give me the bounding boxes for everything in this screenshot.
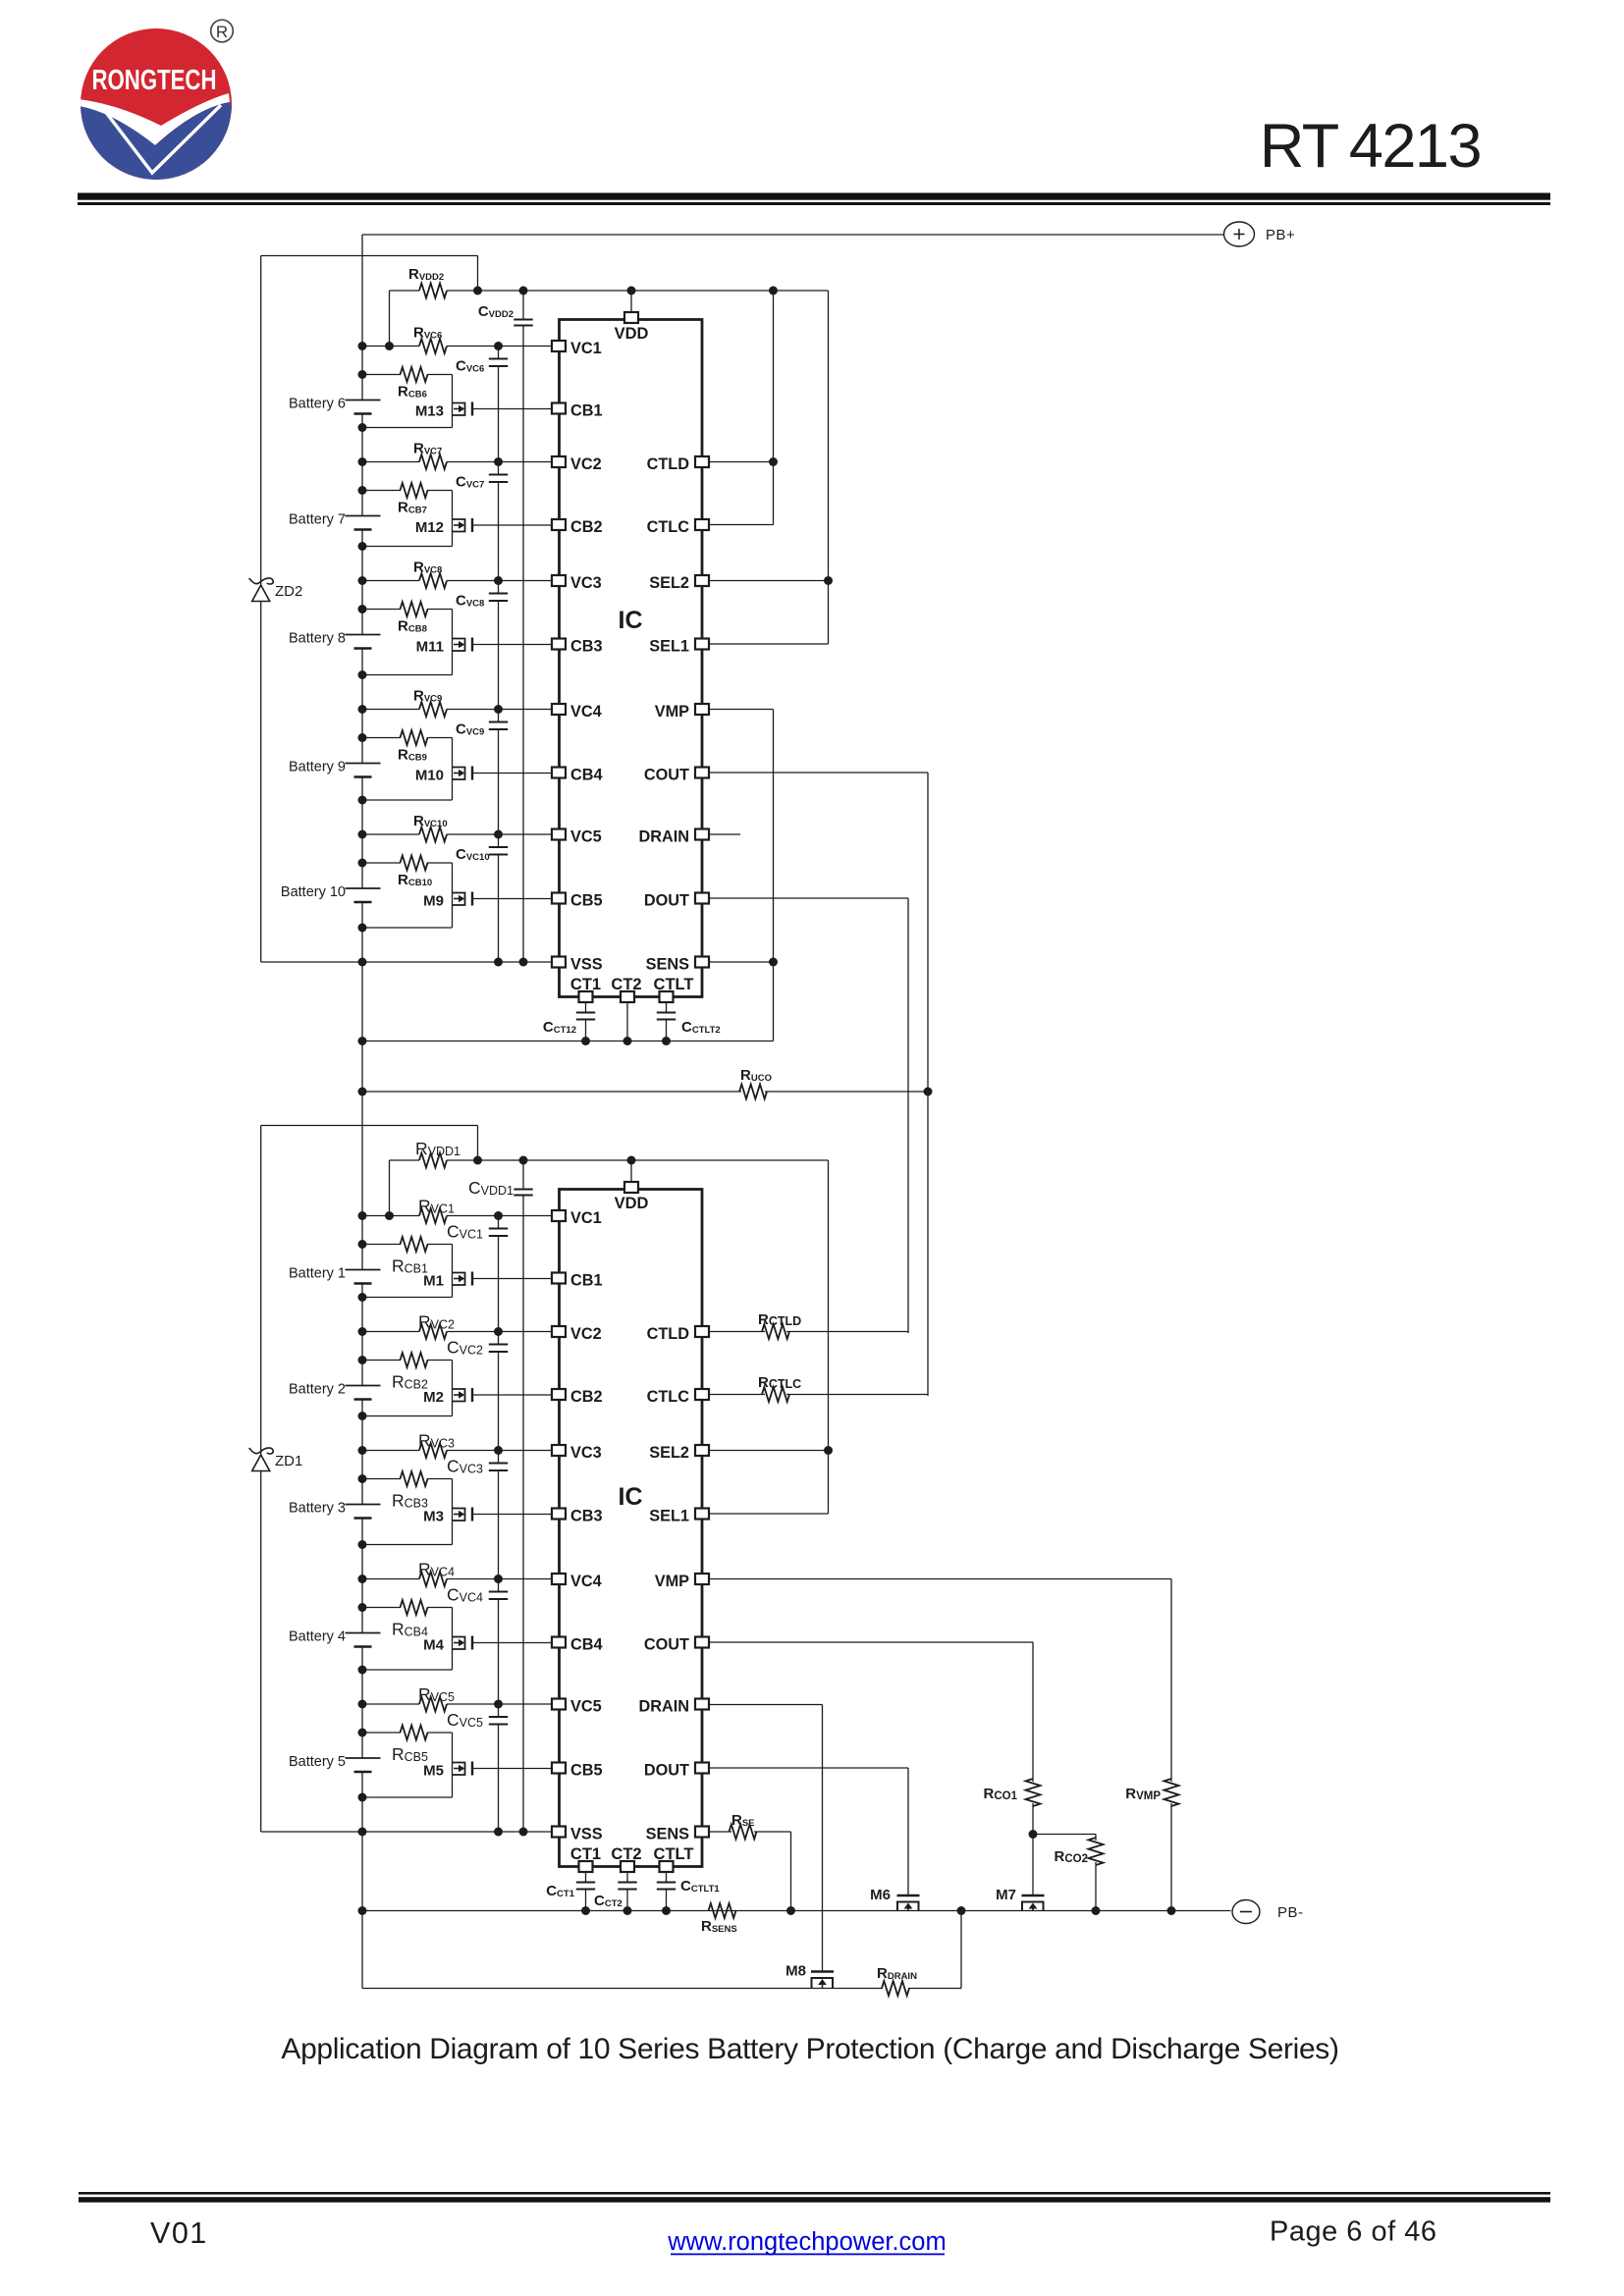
terminal PB- bbox=[1232, 1900, 1260, 1924]
wire DOUT (U2) to RCTLD bbox=[709, 897, 908, 899]
svg-text:DRAIN: DRAIN bbox=[638, 1697, 689, 1715]
svg-text:CB3: CB3 bbox=[570, 1507, 603, 1524]
resistor RCB9 bbox=[358, 733, 367, 742]
svg-text:CT1: CT1 bbox=[570, 1845, 601, 1863]
resistor RVC7 bbox=[358, 457, 367, 466]
pin CB2 bbox=[552, 519, 566, 530]
battery Battery 8 bbox=[361, 581, 363, 635]
resistor RCB10 bbox=[358, 859, 367, 868]
svg-text:CB5: CB5 bbox=[570, 1761, 603, 1779]
pin COUT bbox=[695, 1637, 709, 1648]
resistor RVC10 bbox=[358, 830, 367, 839]
wire battery rail low bbox=[361, 1832, 363, 1989]
pin SENS bbox=[695, 957, 709, 968]
wire DOUT (U1) to M6 bbox=[709, 1767, 908, 1769]
terminal PB+ bbox=[1224, 222, 1255, 246]
resistor RVC1 bbox=[358, 1211, 367, 1220]
pin DRAIN bbox=[695, 1699, 709, 1710]
svg-text:Battery 4: Battery 4 bbox=[289, 1629, 346, 1645]
zener ZD2 bbox=[249, 578, 274, 584]
pin SENS bbox=[695, 1827, 709, 1838]
pin VC4 bbox=[552, 1574, 566, 1584]
resistor RDRAIN bbox=[882, 1981, 909, 1996]
battery Battery 9 bbox=[361, 710, 363, 764]
svg-text:VC4: VC4 bbox=[570, 1573, 602, 1590]
wire SEL2 (U1) bbox=[709, 1450, 829, 1452]
svg-text:CT2: CT2 bbox=[611, 976, 641, 993]
resistor RVC2 bbox=[358, 1327, 367, 1336]
svg-text:SENS: SENS bbox=[646, 955, 689, 973]
resistor RVDD2 bbox=[390, 290, 420, 292]
capacitor CVC3 bbox=[494, 1446, 503, 1455]
pin DRAIN bbox=[695, 829, 709, 840]
wire VMP/SENS net (U2) bbox=[709, 709, 774, 711]
IC U1 box bbox=[560, 1190, 703, 1867]
svg-text:M13: M13 bbox=[415, 403, 444, 420]
pin SEL1 bbox=[695, 1509, 709, 1520]
svg-text:M4: M4 bbox=[423, 1637, 444, 1654]
svg-text:ZD1: ZD1 bbox=[275, 1453, 302, 1469]
svg-text:SEL1: SEL1 bbox=[649, 1507, 689, 1524]
transistor M9 bbox=[452, 863, 454, 928]
resistor RCB1 bbox=[358, 1240, 367, 1249]
pin VC3 bbox=[552, 1445, 566, 1456]
logo RONGTECH bbox=[79, 20, 234, 187]
resistor RVC5 bbox=[358, 1700, 367, 1709]
wire PB+ net bbox=[362, 234, 1223, 236]
pin VC2 bbox=[552, 456, 566, 467]
battery Battery 1 bbox=[361, 1216, 363, 1270]
svg-text:Battery 9: Battery 9 bbox=[289, 760, 346, 775]
capacitor CVC7 bbox=[494, 457, 503, 466]
battery Battery 5 bbox=[361, 1704, 363, 1758]
svg-text:CT2: CT2 bbox=[611, 1845, 641, 1863]
pins CT1 CT2 CTLT bbox=[579, 991, 593, 1002]
pin CTLD bbox=[695, 1326, 709, 1337]
svg-text:Battery 8: Battery 8 bbox=[289, 631, 346, 647]
svg-text:CTLD: CTLD bbox=[647, 1325, 690, 1343]
svg-text:Application Diagram of 10 Seri: Application Diagram of 10 Series Battery… bbox=[281, 2033, 1338, 2065]
left frame wire (ZD1 branch) bbox=[260, 1126, 262, 1456]
pin CTLC bbox=[695, 1389, 709, 1400]
wire CT2 down bbox=[626, 1002, 628, 1041]
svg-text:COUT: COUT bbox=[644, 1635, 689, 1653]
pin VC2 bbox=[552, 1326, 566, 1337]
svg-text:CB4: CB4 bbox=[570, 766, 603, 783]
svg-text:VC2: VC2 bbox=[570, 455, 602, 473]
wire CTLD (U2) bbox=[709, 461, 774, 463]
pin DOUT bbox=[695, 893, 709, 904]
svg-text:VMP: VMP bbox=[655, 703, 689, 721]
svg-text:CTLC: CTLC bbox=[647, 518, 690, 536]
wire COUT (U1) to RCO1 bbox=[709, 1641, 1033, 1643]
svg-text:VSS: VSS bbox=[570, 1825, 603, 1842]
wire drain rail bbox=[362, 1988, 883, 1990]
wire RVDD1-SEL vertical bbox=[828, 1160, 830, 1514]
capacitor CVDD2 bbox=[519, 287, 528, 295]
capacitor CVC10 bbox=[494, 830, 503, 839]
svg-text:RCTLC: RCTLC bbox=[758, 1374, 801, 1391]
wire VSS net bbox=[261, 961, 553, 963]
svg-text:M7: M7 bbox=[996, 1887, 1016, 1903]
svg-text:M5: M5 bbox=[423, 1763, 444, 1780]
svg-text:DOUT: DOUT bbox=[644, 891, 689, 909]
transistor M7 bbox=[1022, 1895, 1045, 1897]
svg-text:VC3: VC3 bbox=[570, 574, 602, 592]
svg-text:CTLT: CTLT bbox=[654, 976, 694, 993]
svg-text:DRAIN: DRAIN bbox=[638, 828, 689, 845]
svg-text:SENS: SENS bbox=[646, 1825, 689, 1842]
transistor M11 bbox=[452, 610, 454, 675]
svg-text:Battery 2: Battery 2 bbox=[289, 1382, 346, 1398]
svg-text:VC4: VC4 bbox=[570, 703, 602, 721]
pin CB4 bbox=[552, 768, 566, 778]
pin COUT bbox=[695, 768, 709, 778]
wire CTLC (U2) bbox=[709, 524, 774, 526]
svg-text:DOUT: DOUT bbox=[644, 1761, 689, 1779]
pin CB5 bbox=[552, 1763, 566, 1774]
svg-text:CB4: CB4 bbox=[570, 1635, 603, 1653]
svg-text:M11: M11 bbox=[416, 639, 444, 656]
footer rule bbox=[79, 2192, 1550, 2195]
pin CB2 bbox=[552, 1389, 566, 1400]
transistor M10 bbox=[452, 738, 454, 801]
pin CTLC bbox=[695, 519, 709, 530]
capacitor CVC5 bbox=[494, 1700, 503, 1709]
pin SEL1 bbox=[695, 639, 709, 650]
wire PB- rail bbox=[362, 1910, 1231, 1912]
capacitor CVC8 bbox=[494, 576, 503, 585]
resistor RCB7 bbox=[358, 486, 367, 495]
svg-text:RCTLD: RCTLD bbox=[758, 1311, 801, 1328]
svg-text:IC: IC bbox=[619, 607, 643, 634]
zener ZD1 bbox=[249, 1448, 274, 1454]
svg-text:R: R bbox=[216, 23, 228, 41]
resistor RVC3 bbox=[358, 1446, 367, 1455]
capacitor CVDD1 bbox=[519, 1156, 528, 1165]
pin VC1 bbox=[552, 1210, 566, 1221]
resistor RCB2 bbox=[358, 1356, 367, 1364]
IC U2 box bbox=[560, 320, 703, 997]
transistor M13 bbox=[452, 375, 454, 428]
battery Battery 4 bbox=[361, 1579, 363, 1633]
resistor RCTLD bbox=[709, 1331, 765, 1333]
svg-text:PB+: PB+ bbox=[1266, 227, 1295, 243]
resistor RVC8 bbox=[358, 576, 367, 585]
wire VDD-CTLD vertical bbox=[773, 291, 775, 525]
resistor RCB8 bbox=[358, 605, 367, 614]
resistor RCB4 bbox=[358, 1603, 367, 1612]
svg-text:M2: M2 bbox=[423, 1389, 444, 1406]
resistor RCB3 bbox=[358, 1474, 367, 1483]
wire COUT (U2) to RCTLC bbox=[709, 772, 928, 774]
pin VC4 bbox=[552, 704, 566, 715]
svg-text:M12: M12 bbox=[415, 519, 444, 536]
svg-text:M3: M3 bbox=[423, 1509, 444, 1525]
pin VSS bbox=[552, 1827, 566, 1838]
svg-text:Battery 1: Battery 1 bbox=[289, 1266, 346, 1282]
pin VC3 bbox=[552, 575, 566, 586]
wire DRAIN (U1) to M8 bbox=[709, 1704, 823, 1706]
header rule bbox=[78, 193, 1550, 200]
svg-text:VMP: VMP bbox=[655, 1573, 689, 1590]
battery Battery 6 bbox=[361, 347, 363, 400]
resistor RVC4 bbox=[358, 1575, 367, 1583]
svg-text:VC5: VC5 bbox=[570, 828, 602, 845]
svg-text:M1: M1 bbox=[423, 1273, 444, 1290]
svg-text:M8: M8 bbox=[785, 1963, 806, 1980]
svg-text:CB2: CB2 bbox=[570, 1388, 603, 1406]
svg-text:COUT: COUT bbox=[644, 766, 689, 783]
pin SEL2 bbox=[695, 575, 709, 586]
resistor RVC9 bbox=[358, 705, 367, 714]
svg-text:VC3: VC3 bbox=[570, 1444, 602, 1462]
svg-text:CB1: CB1 bbox=[570, 1271, 603, 1289]
svg-text:VSS: VSS bbox=[570, 955, 603, 973]
svg-text:Battery 3: Battery 3 bbox=[289, 1501, 346, 1517]
svg-text:IC: IC bbox=[619, 1483, 643, 1511]
pin CB3 bbox=[552, 639, 566, 650]
wire SEL1 (U1) bbox=[709, 1513, 829, 1515]
svg-text:CTLD: CTLD bbox=[647, 455, 690, 473]
battery Battery 10 bbox=[361, 834, 363, 888]
svg-text:CTLC: CTLC bbox=[647, 1388, 690, 1406]
svg-text:CT1: CT1 bbox=[570, 976, 601, 993]
left frame wire (ZD2 branch) bbox=[260, 256, 262, 586]
svg-text:VC2: VC2 bbox=[570, 1325, 602, 1343]
capacitor CCT1 bbox=[585, 1872, 587, 1883]
transistor M12 bbox=[452, 491, 454, 547]
capacitor CVC9 bbox=[494, 705, 503, 714]
transistor M4 bbox=[452, 1608, 454, 1671]
pin VC5 bbox=[552, 1699, 566, 1710]
wire VSS net bbox=[261, 1831, 553, 1833]
transistor M3 bbox=[452, 1479, 454, 1545]
svg-text:Battery 7: Battery 7 bbox=[289, 512, 346, 528]
pin VDD bbox=[627, 287, 636, 295]
transistor M5 bbox=[452, 1733, 454, 1797]
pins CT1 CT2 CTLT bbox=[579, 1861, 593, 1872]
transistor M1 bbox=[452, 1245, 454, 1298]
svg-text:SEL2: SEL2 bbox=[649, 1444, 689, 1462]
pin VC1 bbox=[552, 341, 566, 351]
capacitor CVC2 bbox=[494, 1327, 503, 1336]
wire SEL1 (U2) bbox=[709, 643, 829, 645]
resistor RCO2 bbox=[1033, 1834, 1096, 1836]
resistor RCB6 bbox=[358, 370, 367, 379]
transistor M2 bbox=[452, 1361, 454, 1416]
svg-text:VDD: VDD bbox=[615, 1195, 649, 1212]
pin SEL2 bbox=[695, 1445, 709, 1456]
capacitor CVC1 bbox=[494, 1211, 503, 1220]
svg-text:ZD2: ZD2 bbox=[275, 583, 302, 600]
battery Battery 3 bbox=[361, 1451, 363, 1505]
svg-text:SEL2: SEL2 bbox=[649, 574, 689, 592]
pin VSS bbox=[552, 957, 566, 968]
svg-text:www.rongtechpower.com: www.rongtechpower.com bbox=[667, 2228, 946, 2256]
resistor RCO1 bbox=[1026, 1779, 1041, 1806]
resistor RCB5 bbox=[358, 1729, 367, 1737]
resistor RSE bbox=[709, 1831, 731, 1833]
transistor M8 bbox=[811, 1970, 834, 1973]
pin VMP bbox=[695, 704, 709, 715]
pin VDD bbox=[627, 1156, 636, 1165]
wire SEL2 (U2) bbox=[709, 580, 829, 582]
svg-text:V01: V01 bbox=[150, 2216, 208, 2250]
svg-text:CTLT: CTLT bbox=[654, 1845, 694, 1863]
pin VMP bbox=[695, 1574, 709, 1584]
svg-text:Battery 5: Battery 5 bbox=[289, 1754, 346, 1770]
pin CB3 bbox=[552, 1509, 566, 1520]
pin CB4 bbox=[552, 1637, 566, 1648]
svg-text:CB1: CB1 bbox=[570, 401, 603, 419]
pin CTLD bbox=[695, 456, 709, 467]
transistor M6 bbox=[897, 1895, 920, 1897]
pin CB1 bbox=[552, 1273, 566, 1284]
resistor RSENS bbox=[709, 1903, 736, 1918]
svg-text:VDD: VDD bbox=[615, 325, 649, 343]
capacitor CVC4 bbox=[494, 1575, 503, 1583]
svg-text:Battery 6: Battery 6 bbox=[289, 397, 346, 412]
pin VC5 bbox=[552, 829, 566, 840]
svg-text:CB2: CB2 bbox=[570, 518, 603, 536]
capacitor CCT12 bbox=[585, 1002, 587, 1013]
resistor RUCO bbox=[362, 1091, 741, 1093]
capacitor CVC6 bbox=[494, 342, 503, 350]
resistor RVC6 bbox=[358, 342, 367, 350]
svg-text:CB3: CB3 bbox=[570, 637, 603, 655]
wire VMP (U1) to RVMP bbox=[709, 1578, 1171, 1580]
svg-text:RT 4213: RT 4213 bbox=[1260, 112, 1481, 181]
capacitor CCT2 bbox=[626, 1872, 628, 1883]
svg-text:VC1: VC1 bbox=[570, 340, 602, 357]
battery Battery 7 bbox=[361, 462, 363, 516]
svg-text:VC5: VC5 bbox=[570, 1697, 602, 1715]
svg-text:VC1: VC1 bbox=[570, 1209, 602, 1227]
wire DRAIN stub (U2) bbox=[709, 833, 740, 835]
pin CB1 bbox=[552, 403, 566, 414]
svg-text:SEL1: SEL1 bbox=[649, 637, 689, 655]
svg-text:M10: M10 bbox=[415, 768, 444, 784]
svg-text:M6: M6 bbox=[870, 1887, 891, 1903]
wire battery rail mid bbox=[361, 962, 363, 1216]
capacitor CCTLT2 bbox=[666, 1002, 668, 1013]
svg-text:RONGTECH: RONGTECH bbox=[92, 65, 217, 96]
battery Battery 2 bbox=[361, 1332, 363, 1386]
svg-text:Battery 10: Battery 10 bbox=[281, 884, 346, 900]
pin DOUT bbox=[695, 1763, 709, 1774]
svg-text:M9: M9 bbox=[423, 893, 444, 910]
svg-text:PB-: PB- bbox=[1277, 1904, 1304, 1921]
svg-text:Page 6 of 46: Page 6 of 46 bbox=[1270, 2216, 1436, 2248]
resistor RCTLC bbox=[709, 1394, 765, 1396]
capacitor CCTLT1 bbox=[666, 1872, 668, 1883]
svg-text:CB5: CB5 bbox=[570, 891, 603, 909]
junction dots PB- rail bbox=[957, 1906, 966, 1915]
resistor RVMP bbox=[1164, 1779, 1179, 1806]
resistor RVDD1 bbox=[390, 1159, 420, 1161]
pin CB5 bbox=[552, 893, 566, 904]
